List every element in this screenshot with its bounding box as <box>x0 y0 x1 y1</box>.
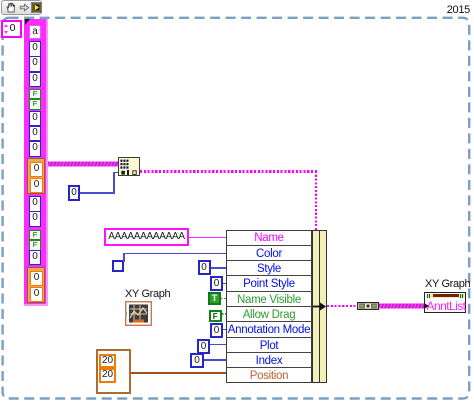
element a (string) <box>29 25 41 39</box>
element 0 (I32) <box>29 141 41 157</box>
XY Graph property node <box>424 292 466 313</box>
wire: 0 to Plot <box>210 344 226 346</box>
Bundle row Annotation Mode <box>226 321 312 336</box>
element F (boolean) <box>29 89 41 100</box>
array index down arrow <box>4 31 8 34</box>
property node header left icon <box>427 294 431 298</box>
element F (boolean) <box>29 99 41 110</box>
wire: 0 to Index <box>204 359 226 361</box>
Style constant 0 <box>198 260 211 275</box>
toolbar arrow icon <box>19 3 30 12</box>
wire: color to Color row vertical <box>123 253 125 262</box>
wire: string to Name <box>189 237 226 238</box>
snippet toolbar <box>1 0 42 15</box>
Bundle tan strip 2 <box>319 230 327 383</box>
element F (boolean) <box>29 240 41 251</box>
wire: bundle output to Build Array (cluster) <box>327 305 358 308</box>
Index Array grid icon <box>120 159 129 170</box>
wire: F to Allow Drag <box>222 313 227 314</box>
property node header strip <box>426 294 465 299</box>
Bundle row Name <box>226 231 312 246</box>
wire: 0 to Index Array stub <box>113 172 118 174</box>
wire: T to Name Visible <box>221 298 226 299</box>
Bundle row Point Style <box>226 275 312 290</box>
boolean constant F <box>209 310 222 323</box>
Build Array node <box>357 302 379 310</box>
Index Array node <box>118 157 140 176</box>
Plot constant 0 <box>197 339 210 354</box>
array constant shell <box>24 19 48 306</box>
Bundle By Name node body <box>226 230 312 383</box>
array index value 0 <box>7 22 18 34</box>
wire: 0 to Annotation Mode <box>223 329 226 331</box>
element 0 (I32) <box>29 111 41 127</box>
property node input arrow <box>424 303 429 309</box>
property node header right icon <box>460 294 464 298</box>
wire: color to Color row horizontal <box>123 253 226 255</box>
wire: 0 to Index Array horizontal <box>80 192 114 194</box>
element 0 (I32) <box>29 126 41 142</box>
property node AnntList text <box>427 299 466 313</box>
element cluster of 2 DBL <box>27 158 45 195</box>
Bundle row Allow Drag <box>226 306 312 321</box>
Bundle tan strip 1 <box>312 230 320 383</box>
property node header bar <box>433 294 459 297</box>
Bundle row Index <box>226 352 312 367</box>
element F (boolean) <box>29 230 41 241</box>
Bundle row Color <box>226 245 312 260</box>
array index up arrow <box>4 24 8 27</box>
Bundle row Plot <box>226 337 312 352</box>
element 0 (I32) <box>29 196 41 212</box>
element 0 (I32) <box>29 41 41 57</box>
toolbar hand icon <box>6 2 17 13</box>
Annotation Mode constant 0 <box>210 323 223 338</box>
Position cluster value 20 <box>99 354 116 369</box>
index constant 0 <box>68 185 80 201</box>
Index row constant 0 <box>190 353 204 368</box>
array corner cursor mark <box>25 19 30 25</box>
XY Graph terminal icon <box>125 301 152 326</box>
wire: 0 to Point Style <box>223 283 226 285</box>
wire: Index Array to bundle (cluster, vertical) <box>315 172 317 230</box>
element cluster of 2 DBL <box>27 267 45 304</box>
Bundle row Name Visible <box>226 291 312 306</box>
wire: array to Index Array (array of clusters) <box>48 161 118 167</box>
toolbar LabVIEW run icon <box>31 2 42 13</box>
Position cluster value 20 <box>99 368 116 383</box>
wire: cluster to Position <box>131 372 226 374</box>
array index box <box>1 20 22 38</box>
Bundle output arrow <box>313 302 327 311</box>
boolean constant T <box>208 292 221 305</box>
element 0 (I32) <box>29 56 41 72</box>
XY Graph label (terminal) <box>125 288 185 300</box>
element 0 (I32) <box>29 72 41 88</box>
element 0 (I32) <box>29 211 41 227</box>
Point Style constant 0 <box>210 276 223 291</box>
XY Graph label (property node) <box>425 278 474 290</box>
string constant AAAAAAAAAAAA <box>104 228 189 246</box>
color box constant <box>112 260 124 272</box>
wire: 0 to Style <box>211 267 227 269</box>
wire: Index Array to bundle (cluster, horizontal) <box>140 170 317 172</box>
element 0 (I32) <box>29 250 41 265</box>
Bundle row Style <box>226 260 312 275</box>
Bundle row Position <box>226 367 312 382</box>
Index Array index terminals <box>121 170 139 176</box>
label 2015 <box>440 4 470 16</box>
Position cluster constant <box>96 349 131 394</box>
wire: 0 to Index Array vertical <box>113 172 115 194</box>
wire: Build Array to property node (array of clusters) <box>379 303 424 309</box>
